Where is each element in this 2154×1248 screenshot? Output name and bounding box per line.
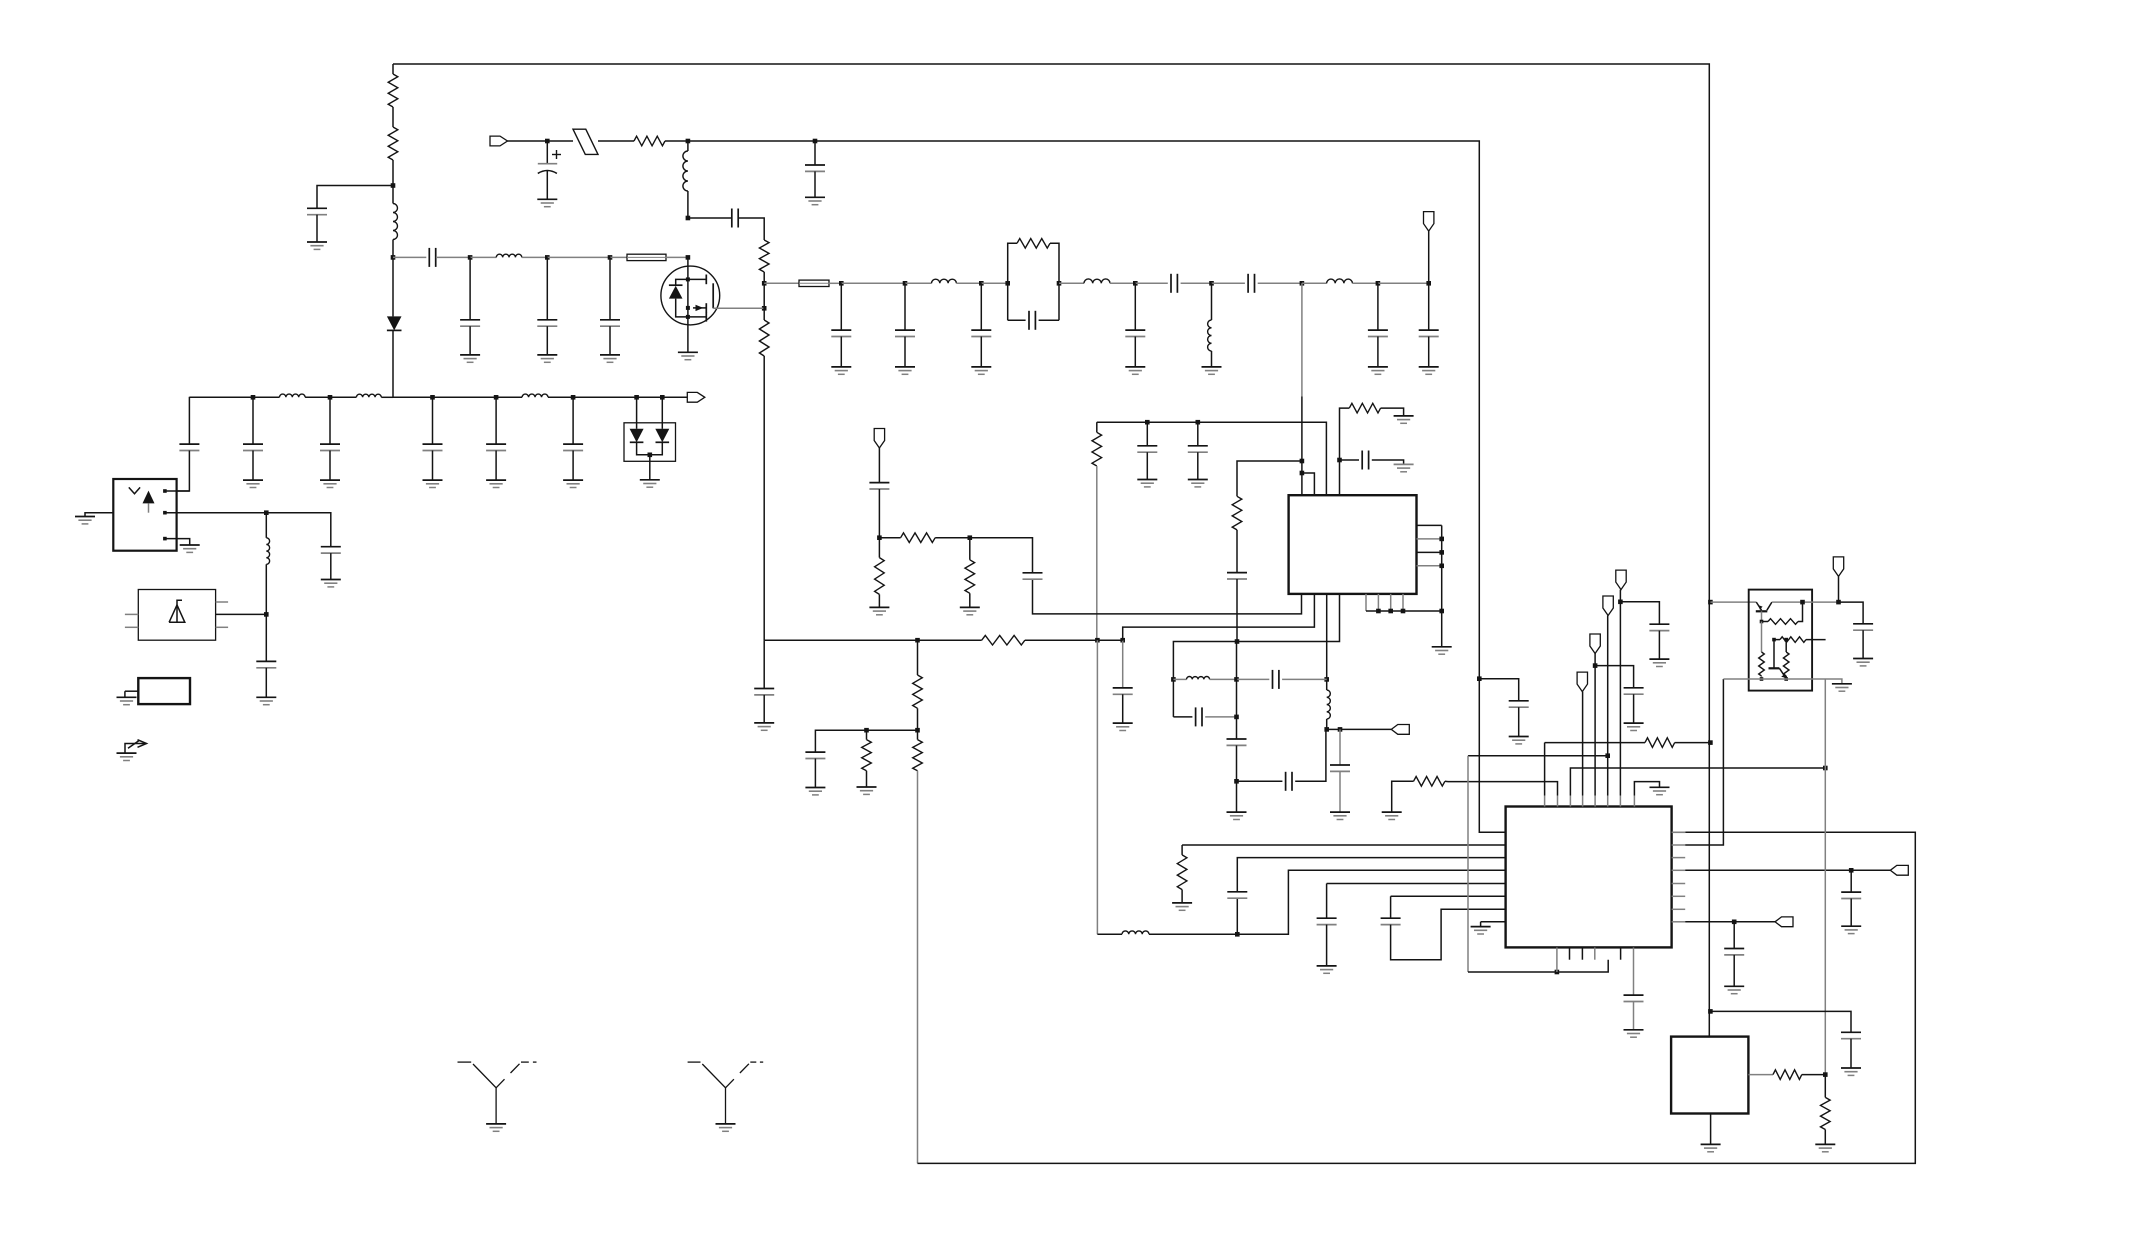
wire <box>1480 922 1482 927</box>
wire <box>878 538 880 558</box>
inductor L4 <box>932 279 957 283</box>
capacitor C22 <box>1317 918 1337 924</box>
junction <box>762 281 767 286</box>
wire <box>1326 884 1328 919</box>
junction <box>1300 459 1305 464</box>
junction <box>864 728 869 733</box>
wire <box>1134 337 1136 367</box>
ferrite bead FB1 <box>627 254 666 260</box>
ground <box>960 607 980 614</box>
capacitor C20 <box>805 752 825 758</box>
wire <box>432 397 434 444</box>
capacitor C21 <box>1227 892 1247 898</box>
wire <box>1733 922 1735 949</box>
wire <box>1197 422 1199 446</box>
wire <box>1237 858 1505 892</box>
diode D3 <box>655 429 669 443</box>
wire <box>1327 883 1506 885</box>
capacitor C13 <box>1273 670 1279 689</box>
wire U1 pin line1 <box>1033 579 1302 614</box>
wire <box>252 397 254 444</box>
wire <box>496 396 522 398</box>
ground <box>1853 659 1873 666</box>
wire <box>1733 955 1735 986</box>
resistor R2 <box>388 127 398 160</box>
capacitor C29 <box>1509 701 1529 707</box>
ground arrow symbol <box>125 744 147 753</box>
wire <box>522 256 548 258</box>
junction <box>608 255 613 260</box>
junction <box>1057 281 1062 286</box>
wire to U1 pin3 <box>1097 422 1327 495</box>
wire <box>1428 231 1430 283</box>
junction <box>1708 600 1713 605</box>
junction <box>1439 564 1444 569</box>
capacitor <box>971 330 991 336</box>
wire <box>1236 530 1238 573</box>
wire <box>252 451 254 481</box>
ground <box>1382 812 1402 819</box>
wire <box>866 771 868 787</box>
junction <box>1760 677 1764 681</box>
wire <box>1798 602 1803 621</box>
wire U3 out <box>1748 1074 1773 1076</box>
wire <box>878 448 880 483</box>
wire <box>1824 1075 1826 1098</box>
resistor R10 <box>901 533 936 543</box>
wire U2 pin3 net <box>1570 768 1825 796</box>
junction <box>903 281 908 286</box>
wire <box>1181 845 1183 855</box>
junction <box>1593 663 1598 668</box>
wire <box>1282 678 1327 680</box>
ground <box>117 753 137 760</box>
component Y1 <box>138 678 190 704</box>
capacitor C15 <box>1227 739 1247 745</box>
junction <box>1426 281 1431 286</box>
junction <box>648 453 653 458</box>
junction <box>762 306 767 311</box>
capacitor C18 <box>869 483 889 489</box>
capacitor C17 <box>1330 765 1350 771</box>
antenna AN1 symbol <box>458 1061 472 1063</box>
wire <box>904 283 906 330</box>
junction <box>1324 677 1329 682</box>
inductor L2 <box>683 151 688 191</box>
ground <box>320 480 340 487</box>
wire <box>1850 870 1852 892</box>
wire <box>879 537 900 539</box>
wire <box>1838 576 1840 602</box>
wire <box>917 640 919 675</box>
wire chain to U1 <box>1301 283 1303 396</box>
capacitor C34 <box>256 661 276 667</box>
wire <box>469 257 471 319</box>
junction <box>494 395 499 400</box>
wire <box>598 140 634 142</box>
junction <box>430 395 435 400</box>
wire <box>1340 728 1391 730</box>
ground U1 <box>1432 647 1452 654</box>
wire <box>1391 895 1506 897</box>
wire <box>866 730 868 739</box>
wire <box>1173 678 1186 680</box>
wire <box>1428 283 1430 330</box>
junction <box>1760 620 1764 624</box>
junction <box>163 489 167 493</box>
wire <box>508 140 548 142</box>
wire <box>1302 282 1327 284</box>
wire bias net <box>1824 679 1826 1075</box>
ground <box>1317 966 1337 973</box>
ground <box>1137 480 1157 487</box>
wire <box>1672 831 1686 833</box>
junction <box>1300 471 1305 476</box>
wire <box>980 283 982 330</box>
inductor L1 <box>393 204 398 240</box>
junction <box>1477 676 1482 681</box>
wire <box>495 397 497 444</box>
wire <box>1211 351 1213 367</box>
wire <box>1327 728 1340 730</box>
junction <box>1836 600 1841 605</box>
wire <box>1301 397 1303 496</box>
wire U2 top pins <box>1544 796 1546 807</box>
ground <box>1649 659 1669 666</box>
capacitor C8 <box>1248 274 1254 293</box>
wire <box>609 326 611 355</box>
ground <box>971 367 991 374</box>
port <box>1424 212 1434 232</box>
junction <box>328 395 333 400</box>
junction <box>251 395 256 400</box>
wire <box>666 256 688 258</box>
wire <box>969 593 971 607</box>
wire <box>547 256 610 258</box>
capacitor <box>423 444 443 450</box>
capacitor <box>486 444 506 450</box>
wire <box>1448 782 1558 796</box>
capacitor <box>1188 446 1208 452</box>
port <box>874 429 884 449</box>
ground <box>1394 464 1414 471</box>
capacitor C5 <box>429 248 435 267</box>
wire <box>1381 408 1404 416</box>
resistor R17 <box>1177 855 1187 890</box>
wire <box>980 337 982 367</box>
wire <box>1096 466 1098 640</box>
resistor R23 <box>1783 652 1789 676</box>
wire <box>305 396 330 398</box>
wire <box>1812 679 1842 684</box>
wire <box>1468 971 1557 973</box>
junction <box>686 255 691 260</box>
resistor R20 <box>1768 619 1798 625</box>
junction <box>686 277 690 281</box>
inductor L10 <box>1122 931 1149 934</box>
resistor R18 <box>1645 738 1675 748</box>
junction <box>1235 639 1240 644</box>
ground <box>563 480 583 487</box>
inductor L3 <box>496 254 522 257</box>
wire <box>1685 869 1851 871</box>
wire <box>1633 1002 1635 1030</box>
junction <box>1234 715 1239 720</box>
junction <box>1005 281 1010 286</box>
wire <box>636 397 638 429</box>
junction <box>1784 677 1788 681</box>
inductor L8 <box>1327 690 1331 719</box>
ground U2 pin <box>1471 927 1491 934</box>
resistor R7 <box>1232 496 1242 530</box>
wire <box>1237 780 1283 782</box>
wire X1 pins <box>125 613 138 615</box>
wire <box>1467 756 1469 972</box>
wire <box>124 691 126 697</box>
wire to U2 matching <box>1096 640 1098 934</box>
ground <box>537 355 557 362</box>
wire <box>1236 642 1238 740</box>
wire <box>392 107 394 127</box>
capacitor C2 electrolytic <box>538 163 557 165</box>
junction <box>1337 458 1342 463</box>
wire <box>266 513 331 547</box>
wire <box>265 668 267 698</box>
wire <box>1236 898 1238 934</box>
capacitor C3 <box>805 165 825 171</box>
inductor L9 <box>1187 677 1210 680</box>
ground <box>1330 812 1350 819</box>
capacitor C7 <box>1171 274 1177 293</box>
wire <box>637 442 663 455</box>
capacitor C16 <box>1286 772 1292 791</box>
inductor L11 <box>280 394 306 397</box>
wire <box>265 513 267 538</box>
wire <box>547 140 573 142</box>
resistor R11 <box>875 558 885 595</box>
wire <box>1392 781 1414 812</box>
junction <box>686 315 690 319</box>
ground ant2 <box>716 1124 736 1131</box>
ground <box>1188 480 1208 487</box>
wire <box>1205 716 1236 718</box>
Q1 body diode <box>676 279 688 285</box>
wire <box>688 140 815 142</box>
junction <box>1120 638 1125 643</box>
wire <box>381 396 393 398</box>
junction <box>391 183 396 188</box>
ground <box>256 697 276 704</box>
ground <box>1509 737 1529 744</box>
wire <box>1326 679 1328 690</box>
wire <box>917 708 919 730</box>
ground <box>243 480 263 487</box>
wire <box>1806 639 1826 641</box>
capacitor C14 <box>1196 707 1202 726</box>
junction <box>1401 609 1406 614</box>
ground Q1 <box>678 352 698 359</box>
wire <box>1097 933 1122 935</box>
ground U4 <box>180 545 200 552</box>
wire <box>1619 590 1621 796</box>
wire <box>1149 933 1237 935</box>
capacitor C6 <box>1029 311 1035 330</box>
ground <box>537 199 557 206</box>
junction <box>1555 970 1560 975</box>
capacitor <box>600 320 620 326</box>
capacitor C10 <box>1362 451 1368 470</box>
wire <box>1110 282 1135 284</box>
wire <box>1173 716 1192 718</box>
ground U3 <box>1701 1144 1721 1151</box>
wire <box>469 326 471 355</box>
wire <box>470 256 496 258</box>
wire <box>165 539 190 545</box>
wire <box>1122 640 1124 688</box>
resistor R19 <box>1414 777 1445 787</box>
capacitor C23 <box>1381 918 1401 924</box>
ground <box>307 242 327 249</box>
wire <box>1059 282 1084 284</box>
wire <box>1372 460 1404 464</box>
wire <box>1675 742 1711 744</box>
resistor R6 <box>1017 239 1050 249</box>
junction <box>1439 537 1444 542</box>
junction <box>877 535 882 540</box>
wire <box>1391 909 1506 959</box>
capacitor C11 <box>1023 573 1043 579</box>
wire <box>649 455 651 480</box>
ground <box>1113 723 1133 730</box>
ground <box>869 607 889 614</box>
wire <box>1595 666 1634 688</box>
wire <box>329 451 331 481</box>
wire LPF chain <box>189 396 253 398</box>
IC U1 RF transceiver <box>1289 495 1417 594</box>
capacitor <box>831 330 851 336</box>
capacitor <box>243 444 263 450</box>
diode pack D2 D3 box <box>624 423 676 462</box>
resistor R25 <box>1821 1097 1831 1129</box>
capacitor C30 <box>1853 624 1873 630</box>
IC U2 main controller <box>1506 807 1672 948</box>
junction <box>915 638 920 643</box>
junction <box>1708 740 1713 745</box>
wire U1 right pins <box>1417 524 1442 526</box>
junction <box>1784 638 1788 642</box>
wire <box>1761 676 1763 679</box>
resistor R3 <box>634 136 665 146</box>
wire <box>1518 707 1520 736</box>
wire <box>1607 616 1609 796</box>
wire <box>1445 780 1448 782</box>
junction <box>264 510 269 515</box>
port <box>1616 570 1626 590</box>
inductor L7 <box>1208 320 1212 351</box>
wire <box>392 240 394 317</box>
capacitor <box>320 444 340 450</box>
wire <box>1850 1039 1852 1068</box>
port <box>1590 634 1600 654</box>
wire U2 right pins <box>1672 831 1686 833</box>
wire <box>763 640 765 688</box>
wire <box>1210 678 1237 680</box>
wire U1 pin4 <box>1340 408 1350 495</box>
wire <box>1197 452 1199 479</box>
port <box>1391 725 1409 735</box>
wire <box>1135 282 1168 284</box>
resistor R1 <box>388 74 398 107</box>
wire <box>970 538 1033 573</box>
wire <box>436 256 470 258</box>
wire <box>1377 283 1379 330</box>
wire <box>495 451 497 481</box>
junction <box>1388 609 1393 614</box>
junction <box>915 728 920 733</box>
wire <box>905 282 932 284</box>
wire <box>1340 459 1360 461</box>
inductor L6 <box>1327 279 1353 283</box>
ground <box>321 580 341 587</box>
wire U2 enable loop <box>1468 755 1608 757</box>
wire <box>969 538 971 560</box>
wire <box>1761 611 1763 621</box>
port <box>1775 917 1793 927</box>
wire <box>814 171 816 197</box>
junction <box>1772 638 1776 642</box>
junction <box>1133 281 1138 286</box>
wire <box>1812 601 1838 603</box>
wire <box>1211 283 1213 320</box>
junction <box>163 511 167 515</box>
wire <box>1839 602 1864 624</box>
capacitor C12 <box>1113 688 1133 694</box>
wire <box>1620 602 1659 624</box>
wire LPF left <box>188 397 190 444</box>
wire Y1 pin <box>125 690 138 692</box>
resistor R22 <box>1780 637 1806 643</box>
resistor R8 <box>1092 432 1102 466</box>
ground <box>1815 1144 1835 1151</box>
wire VCC top rail to U3 <box>393 64 1709 1037</box>
diode D1 <box>387 316 402 330</box>
capacitor C25 <box>1649 624 1669 630</box>
wire <box>1557 960 1608 972</box>
wire U2 bottom pins <box>1556 947 1558 972</box>
wire <box>1762 678 1813 680</box>
junction <box>1324 727 1329 732</box>
antenna AN2 symbol <box>688 1061 701 1063</box>
wire <box>1582 692 1584 796</box>
junction <box>1235 932 1240 937</box>
wire <box>1824 1130 1826 1145</box>
wire <box>546 326 548 355</box>
junction <box>1145 420 1150 425</box>
capacitor C32 <box>179 444 199 450</box>
capacitor C31 <box>1841 1032 1861 1038</box>
wire <box>1545 742 1645 744</box>
wire <box>573 396 687 398</box>
IC U3 regulator <box>1671 1037 1748 1114</box>
fuse F1 <box>573 129 598 154</box>
resistor R21 <box>1759 652 1765 676</box>
wire <box>1339 771 1341 812</box>
wire <box>546 257 548 319</box>
resistor R5 <box>759 320 769 356</box>
ground <box>1419 367 1439 374</box>
wire <box>1146 452 1148 479</box>
U4 internal symbol <box>129 487 140 493</box>
